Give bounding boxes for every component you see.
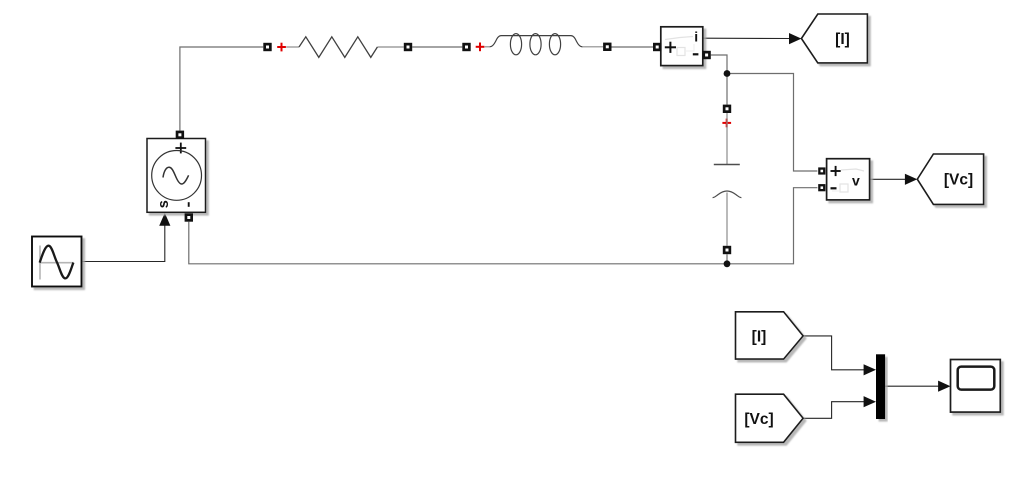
arrowhead mux input 1 — [864, 364, 876, 375]
leads — [485, 46, 490, 48]
bottom rail: CVS minus to node B — [189, 188, 818, 264]
VM minus port — [818, 184, 825, 191]
red plus polarity — [722, 122, 731, 124]
wire From [Vc] to mux input 2 — [803, 402, 864, 419]
inductor L (series RLC branch) — [462, 34, 611, 55]
wire current measurement i output to Goto [I] — [703, 37, 790, 39]
curved bottom plate — [713, 191, 742, 198]
bottom port — [723, 246, 731, 254]
minus label — [693, 53, 699, 55]
wire capacitor bottom to node B — [726, 254, 728, 263]
From tag [I] — [736, 312, 804, 359]
CM input port — [653, 43, 661, 51]
resistor R (series RLC branch) — [263, 37, 412, 58]
top plate — [714, 164, 740, 166]
plus label — [665, 46, 676, 48]
svg-text:[I]: [I] — [835, 31, 850, 48]
svg-text:v: v — [852, 173, 860, 189]
capacitor C (series RLC branch, vertical) — [713, 105, 742, 255]
CM minus port — [702, 51, 710, 59]
svg-text:[Vc]: [Vc] — [744, 411, 773, 428]
Goto tag [I] — [801, 14, 867, 63]
plus label — [175, 147, 186, 149]
red plus polarity — [476, 46, 485, 48]
wire From [I] to mux input 1 — [803, 336, 864, 370]
junction node A — [724, 70, 731, 77]
source circle — [152, 151, 202, 201]
wire resistor to inductor — [412, 46, 462, 48]
CVS top port — [176, 131, 184, 139]
left port — [462, 43, 470, 51]
junction node B — [724, 260, 731, 267]
faint watermark — [841, 169, 864, 171]
coil — [490, 36, 583, 47]
svg-text:s: s — [156, 200, 172, 208]
red plus polarity — [277, 46, 286, 48]
zigzag — [299, 37, 377, 58]
leads — [726, 113, 728, 164]
faint watermark — [665, 37, 693, 40]
mux — [876, 354, 885, 419]
svg-text:i: i — [694, 28, 698, 44]
controlled voltage source U1 — [147, 139, 206, 213]
wire CVS + output up and right to resistor — [180, 47, 263, 131]
wire sine wave output to s input — [82, 225, 165, 262]
right port — [603, 43, 611, 51]
arrowhead into Goto [Vc] — [905, 174, 917, 185]
From tag [Vc] — [736, 394, 804, 442]
wire voltage measurement v output to Goto [Vc] — [870, 178, 906, 180]
plus label — [831, 170, 841, 172]
top port — [723, 105, 731, 113]
current measurement block U2 — [661, 27, 703, 66]
right port — [404, 43, 412, 51]
wire node A to voltage measurement plus — [727, 74, 817, 172]
VM plus port — [818, 167, 825, 174]
CVS minus port — [185, 213, 193, 221]
sine wave source block — [32, 237, 82, 287]
arrowhead into s input of controlled voltage source — [159, 213, 170, 226]
arrowhead into Goto [I] — [789, 33, 801, 44]
svg-text:[Vc]: [Vc] — [944, 172, 973, 189]
voltage measurement block U3 — [827, 159, 870, 200]
minus label — [831, 187, 837, 189]
sine inside circle — [163, 167, 189, 184]
minus label (rotated) — [188, 202, 190, 207]
arrowhead mux input 2 — [864, 396, 876, 407]
wire inductor to current measurement — [612, 46, 654, 48]
leads — [286, 46, 299, 48]
wire mux output to scope — [885, 385, 938, 387]
left port — [263, 43, 271, 51]
Goto tag [Vc] — [917, 154, 983, 204]
arrowhead into scope — [938, 381, 950, 392]
wire current measurement minus down to node A — [711, 55, 727, 105]
scope block — [951, 360, 1001, 413]
svg-text:[I]: [I] — [752, 328, 767, 345]
